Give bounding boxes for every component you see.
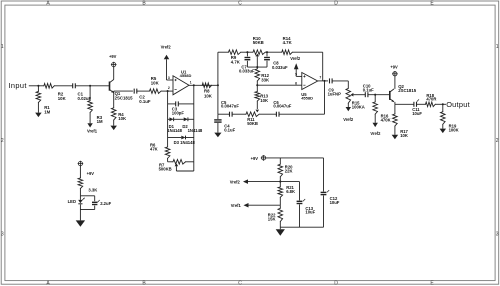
svg-text:+9V: +9V [87,171,95,176]
svg-text:1: 1 [496,44,499,50]
svg-text:Output: Output [446,100,470,109]
svg-text:D3 1N4148: D3 1N4148 [174,140,196,145]
ground rail bias [280,226,323,228]
resistor R3 [88,86,93,123]
wire Q1 emitter down/right [113,91,115,93]
resistor R4 [111,91,116,126]
resistor R6 [165,147,170,162]
wire Q1 collector to +9V [113,67,115,80]
resistor R 3.3K [78,166,83,196]
wire C9 to R15 [332,81,348,89]
wire Vref2 out [248,181,280,183]
wire R10 to R14 [265,51,282,53]
svg-text:50KB: 50KB [247,121,258,126]
node emitter junction [394,103,396,105]
wire U5 output [318,80,328,82]
resistor R1 [36,86,41,113]
node wiper join [256,66,258,68]
ground under R17 [392,135,399,140]
potentiometer R10 [253,50,265,55]
label D2 [182,124,203,133]
svg-text:Vref2: Vref2 [230,179,241,184]
transistor Q1 [110,80,114,93]
ground under R19 [440,129,447,134]
label C4 [224,123,235,132]
ground under bias [276,227,285,236]
svg-text:Input: Input [8,81,26,90]
label R3 [97,115,103,124]
label R14 [283,36,293,45]
node fb left [167,90,169,92]
svg-text:3: 3 [1,232,4,238]
label R1 [44,105,50,114]
svg-text:10uF: 10uF [330,200,340,205]
op-amp U5 [302,73,318,90]
svg-text:LED: LED [68,199,76,204]
label U1 [180,69,192,78]
svg-text:10K: 10K [151,80,160,85]
diode D3 [168,136,194,140]
node Vref2 out [279,181,281,183]
svg-text:3.3K: 3.3K [88,187,97,192]
capacitor C9 [330,78,333,83]
resistor R17 [393,104,398,135]
svg-text:Vref2: Vref2 [290,56,301,61]
node R3 branch [89,85,91,87]
svg-text:15K: 15K [268,216,276,221]
label Vref2 (R15) [343,117,354,122]
+9V symbol LED [78,161,84,167]
Vref1 left arrow [244,203,249,208]
capacitor C6 [276,112,279,117]
svg-text:0.1uF: 0.1uF [363,87,374,92]
svg-text:4558D: 4558D [180,73,192,78]
svg-text:2.2uF: 2.2uF [100,201,111,206]
svg-text:10uF: 10uF [412,111,422,116]
label Q1 [115,91,134,100]
capacitor 2.2uF [92,200,100,205]
capacitor C12 [321,158,330,227]
R10 wiper [256,54,260,68]
wire C1 to Q1 base [75,85,109,87]
label R8 [204,89,213,99]
label R10 [253,36,264,45]
label R9 [231,55,241,64]
potentiometer R11 [246,112,259,117]
svg-text:D: D [334,281,338,286]
label R16 [381,114,391,123]
label C2 [139,95,151,104]
resistor R16 [373,95,378,123]
svg-text:100K: 100K [449,127,459,132]
capacitor C10 [365,92,368,97]
wire Q2 collector to +9V [394,76,396,89]
wire emitter to C2 [114,90,133,92]
svg-text:1uFNP: 1uFNP [328,92,341,97]
svg-text:Vref2: Vref2 [343,117,354,122]
svg-text:4.7K: 4.7K [231,59,241,64]
node U5 out [323,80,325,82]
node C8 top [266,51,268,53]
svg-text:33K: 33K [261,78,270,83]
capacitor C1 [73,83,76,88]
R15 wiper [351,93,366,97]
svg-text:10K: 10K [58,96,67,101]
svg-text:Vref1: Vref1 [231,203,242,208]
svg-text:Vref2: Vref2 [370,131,381,136]
wire C2 to R5 [137,90,150,92]
node R19 top [442,103,444,105]
capacitor C4 [214,114,221,132]
pin 5 label [295,73,297,77]
label R19 [449,123,459,132]
svg-text:4.7K: 4.7K [283,40,293,45]
wire R11 to C6 [259,113,276,115]
label C8 [272,61,288,70]
ground under C4 [214,133,221,138]
label +9V (LED) [87,171,95,176]
resistor R13 [255,85,260,109]
ground under R4 [110,126,117,131]
label R2 [58,91,67,100]
svg-text:1: 1 [190,80,192,84]
svg-text:50KB: 50KB [253,40,264,45]
svg-text:Vref2: Vref2 [161,44,172,49]
svg-text:1M: 1M [97,119,103,124]
svg-text:0.033uF: 0.033uF [239,68,255,73]
svg-text:4558D: 4558D [301,96,313,101]
pin 7 label [319,76,321,80]
label R21 [286,185,295,194]
resistor R20 [278,158,283,182]
label 2.2uF [100,201,111,206]
pin 3 label [168,76,170,80]
wire C11 to R18 [417,103,426,105]
label Vref2 (bias) [230,179,241,184]
capacitor C11 [414,99,419,106]
label Vref1 (bias) [231,203,242,208]
svg-text:47K: 47K [150,147,158,152]
resistor R12 [255,67,260,85]
svg-text:10K: 10K [118,116,127,121]
resistor R2 [44,84,54,89]
pin 2 label [168,86,170,90]
label D3 [174,140,196,145]
wire bt vertical [217,52,219,114]
svg-text:C: C [238,281,242,286]
svg-text:0.0047uF: 0.0047uF [221,104,239,109]
svg-text:10K: 10K [204,94,213,99]
transistor Q2 [390,89,394,102]
resistor R5 [150,89,162,94]
Output label [446,100,470,109]
label R20 [285,164,293,173]
label R15 [352,101,365,110]
wire C10 to Q2 base [368,94,390,96]
label R11 [247,117,258,126]
svg-text:Vref1: Vref1 [87,129,98,134]
+9V symbol above Q2 [392,71,398,77]
svg-text:2: 2 [168,86,170,90]
label U5 [301,92,313,101]
label 3.3K [88,187,97,192]
label R13 [260,93,269,102]
R13 wiper arrow [256,110,260,113]
wire Q2 emitter down [394,102,396,104]
svg-text:10K: 10K [260,98,269,103]
node R13 top [256,84,258,86]
label +9V (bias) [251,156,259,161]
wire R2 to C1 [54,85,72,87]
svg-text:6: 6 [295,81,297,85]
svg-text:10uF: 10uF [305,210,315,215]
node bt input [217,84,219,86]
op-amp U1 [173,76,189,95]
pin 6 label [295,81,297,85]
wire bt top [218,51,229,53]
svg-text:0.033uF: 0.033uF [272,65,288,70]
Vref2 arrow above U1 [164,55,170,60]
resistor R18 [426,102,436,107]
Vref1 arrow under R3 [87,123,92,127]
wire Vref1 out [248,204,280,206]
label Vref2 (U1) [161,44,172,49]
wire Vref2 to pin5 [296,69,302,76]
potentiometer R15 [346,88,351,107]
label Q2 [398,84,417,93]
node R16 top [374,94,376,96]
svg-text:100KA: 100KA [352,105,365,110]
label R17 [400,129,408,138]
+9V symbol bias [261,155,267,161]
diode D1 [168,117,184,121]
wire R12 to pin6 [257,84,302,86]
capacitor C3 [168,101,194,106]
big ground LED [76,220,85,226]
label R22 [268,212,276,221]
svg-text:10K: 10K [400,133,408,138]
resistor R21 [278,182,283,206]
label C6 [273,100,291,109]
+9V symbol above Q1 [111,62,117,68]
label LED [68,199,76,204]
R7 wiper [175,162,194,171]
wire LED to ground [79,210,81,221]
wire C7 C8 join [247,66,267,68]
Vref2 left arrow [243,179,248,184]
label Vref2 (R16) [370,131,381,136]
svg-text:2: 2 [496,138,499,144]
Vref2 arrow above U5 [294,63,299,69]
diode D2 [184,117,194,121]
svg-text:0.0047uF: 0.0047uF [273,104,291,109]
svg-text:0.02uF: 0.02uF [78,96,92,101]
wire R9 to R10 [241,51,253,53]
svg-text:22K: 22K [285,168,293,173]
label R5 [151,76,160,85]
svg-text:2SC1815: 2SC1815 [398,88,417,93]
node input junction [37,85,39,87]
resistor R19 [441,104,446,128]
wire R14 to U5 out [292,52,322,81]
svg-text:6.8K: 6.8K [286,189,295,194]
label R6 [150,143,158,152]
svg-text:1: 1 [1,44,4,50]
node C5 corner [218,113,230,115]
ground under R1 [35,113,42,118]
node R4 branch [113,90,115,92]
svg-text:+9V: +9V [390,64,398,69]
wire input to R2 [29,85,44,87]
Input label [8,81,26,90]
capacitor C7 [245,52,251,67]
svg-text:1M: 1M [44,110,50,115]
label C10 [363,83,374,92]
wire 9V rail [266,157,324,159]
label +9V (Q2) [390,64,398,69]
label R7 [159,162,172,171]
wire Vref2 to pin3 [167,59,174,80]
label C12 [330,196,340,205]
svg-text:2SC1815: 2SC1815 [115,96,134,101]
capacitor C2 [134,89,137,94]
resistor R8 [202,83,211,88]
label R12 [261,73,270,82]
LED D [78,198,84,204]
label C7 [239,64,255,73]
svg-text:0.1uF: 0.1uF [224,127,235,132]
node R20 top [279,157,281,159]
label D1 [167,124,182,133]
label C1 [78,91,92,100]
LED cap loop [80,196,94,210]
node C7 top [246,51,248,53]
svg-text:2: 2 [1,138,4,144]
wire C6 to U5 out [279,81,324,114]
svg-text:0.1uF: 0.1uF [139,99,151,104]
svg-text:100pF: 100pF [172,111,185,116]
label R4 [118,112,127,121]
resistor R9 [229,50,241,55]
svg-text:1N4148: 1N4148 [167,128,182,133]
svg-text:+9V: +9V [109,54,117,59]
resistor R14 [282,50,293,55]
wire C5 to R11 [232,113,246,115]
node Vref1 out [279,204,281,206]
svg-text:D: D [334,1,338,7]
svg-text:C: C [238,1,242,7]
svg-text:+9V: +9V [251,156,259,161]
pin 1 label [190,80,192,84]
wire R5 to U1 pin2 [161,90,173,92]
label C5 [221,100,239,109]
resistor R22 [278,205,283,227]
label C11 [412,107,422,116]
svg-text:500KB: 500KB [159,167,172,172]
label C9 [328,88,341,97]
node fb right [193,84,195,86]
wire fb right rail [193,85,195,162]
wire U1 output [189,84,218,86]
wire fb left rail [167,91,169,147]
label Vref2 (U5) [290,56,301,61]
capacitor C8 [264,52,270,67]
capacitor C13 [280,182,305,228]
svg-text:1N4148: 1N4148 [188,128,203,133]
capacitor C5 [230,112,233,117]
label +9V (Q1) [109,54,117,59]
svg-text:7: 7 [319,76,321,80]
svg-text:470K: 470K [381,118,391,123]
svg-text:3: 3 [496,232,499,238]
label C13 [305,206,315,215]
svg-text:470R: 470R [426,97,436,102]
label R18 [426,93,436,102]
wire emitter to C11 [395,103,414,105]
potentiometer R7 [168,160,194,165]
Vref2 arrow under R15 [346,107,351,111]
label Vref1 (R3) [87,129,98,134]
wire R18 to Output [435,103,446,105]
Vref2 arrow under R16 [373,123,378,127]
label C3 [172,107,185,116]
